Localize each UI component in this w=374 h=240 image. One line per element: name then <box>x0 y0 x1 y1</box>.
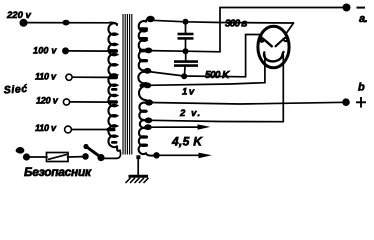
svg-text:1 v: 1 v <box>182 87 195 98</box>
svg-text:120 v: 120 v <box>36 96 59 106</box>
svg-text:Sieć: Sieć <box>3 83 28 97</box>
svg-text:110 v: 110 v <box>35 72 57 82</box>
svg-text:110 v: 110 v <box>35 123 57 133</box>
svg-text:a.: a. <box>359 13 368 25</box>
svg-text:100 v: 100 v <box>33 46 57 56</box>
svg-text:500 K: 500 K <box>205 70 230 81</box>
svg-text:Безопасник: Безопасник <box>24 165 92 179</box>
svg-text:220 v: 220 v <box>6 10 31 21</box>
svg-text:b: b <box>358 82 365 94</box>
svg-text:300 в: 300 в <box>225 19 247 30</box>
svg-text:2 v.: 2 v. <box>179 108 202 119</box>
svg-text:4,5 K: 4,5 K <box>171 135 203 149</box>
